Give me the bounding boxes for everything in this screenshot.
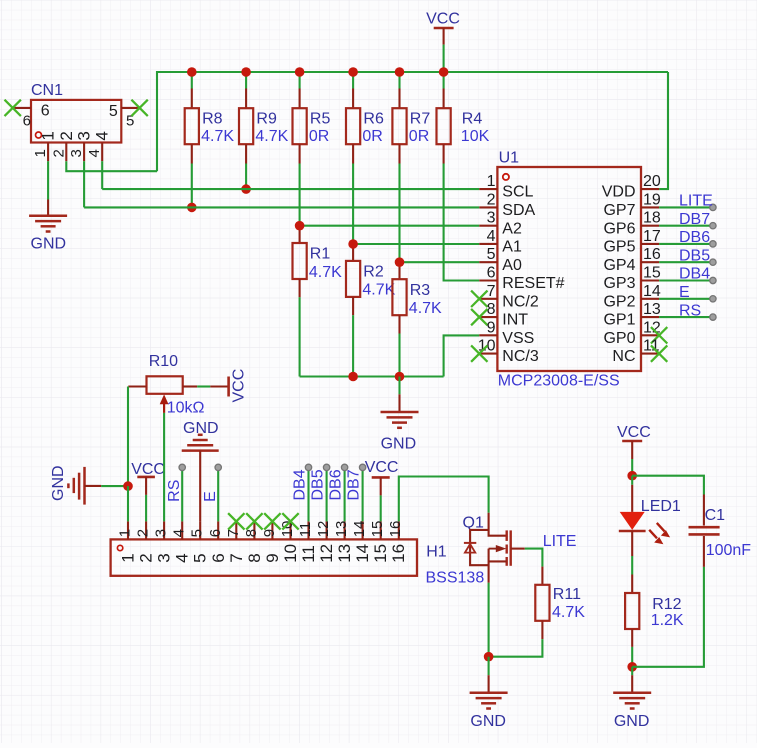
resistor R2: [352, 244, 354, 261]
wire net DB5: [659, 261, 713, 263]
LED1 cathode wire: [631, 531, 633, 556]
svg-text:3: 3: [487, 210, 496, 227]
svg-text:17: 17: [643, 228, 661, 245]
wire CN1 pin4 (SCL): [101, 161, 103, 189]
node R3 top junction: [395, 257, 405, 267]
svg-text:100nF: 100nF: [706, 542, 752, 559]
U1 pin 2 (SDA): [479, 206, 497, 208]
CN1 pin 1 indicator: [36, 132, 42, 138]
svg-text:5: 5: [487, 246, 496, 263]
svg-text:4.7K: 4.7K: [362, 282, 395, 299]
wire H1 pin6 (E): [217, 471, 219, 522]
svg-text:GND: GND: [614, 713, 650, 730]
wire net E: [659, 298, 713, 300]
wire net A2: [300, 225, 480, 227]
svg-text:1: 1: [487, 173, 496, 190]
U1 pin 14 (GP2): [641, 298, 659, 300]
svg-text:4.7K: 4.7K: [255, 128, 288, 145]
H1 pin 11: [307, 521, 309, 539]
svg-text:H1: H1: [426, 544, 447, 561]
R10 wiper arrow: [163, 401, 165, 413]
svg-text:CN1: CN1: [31, 82, 63, 99]
node R3/GND rail junction: [395, 372, 405, 382]
svg-text:LED1: LED1: [641, 498, 681, 515]
wire net DB7: [659, 225, 713, 227]
wire R7 lower: [398, 164, 400, 263]
svg-text:DB5: DB5: [310, 469, 327, 500]
svg-text:12: 12: [315, 521, 332, 538]
svg-text:4.7K: 4.7K: [309, 264, 342, 281]
svg-text:DB6: DB6: [328, 469, 345, 500]
svg-text:10kΩ: 10kΩ: [167, 399, 205, 416]
H1 pin 12: [326, 521, 328, 539]
ground GND (H1 pin5, flipped): [182, 449, 219, 452]
U1 pin 17 (GP5): [641, 243, 659, 245]
U1 pin 19 (GP7): [641, 206, 659, 208]
svg-text:BSS138: BSS138: [426, 570, 485, 587]
svg-text:C1: C1: [705, 507, 726, 524]
U1 pin 9 (VSS): [479, 334, 497, 336]
svg-text:3: 3: [155, 553, 174, 562]
svg-text:6: 6: [209, 553, 228, 562]
resistor R3: [398, 262, 400, 279]
svg-text:12: 12: [317, 544, 336, 563]
wire H1 pin3 to R10 wiper: [163, 413, 165, 522]
resistor R9: [245, 72, 247, 89]
R10 right pin to VCC: [183, 385, 198, 387]
svg-text:6: 6: [41, 103, 50, 120]
svg-text:DB6: DB6: [679, 229, 710, 246]
svg-text:8: 8: [243, 529, 260, 537]
resistor R4: [443, 72, 445, 89]
node LITE endpoint: [710, 204, 716, 210]
CN1 pin 3: [83, 143, 85, 162]
svg-text:GP6: GP6: [603, 220, 635, 237]
no-connect X on U1 pin 10: [471, 345, 487, 361]
node Q1 source/R11 junction: [484, 652, 494, 662]
wire H1 pin 13 (DB6): [344, 471, 346, 522]
svg-text:3: 3: [153, 529, 170, 537]
svg-text:VCC: VCC: [365, 459, 399, 476]
svg-text:11: 11: [299, 545, 318, 563]
svg-text:15: 15: [371, 544, 390, 563]
CN1 pin 1: [47, 143, 49, 162]
svg-text:19: 19: [643, 191, 661, 208]
svg-text:1.2K: 1.2K: [651, 612, 684, 629]
wire rail to ground: [398, 377, 400, 395]
svg-text:VCC: VCC: [426, 10, 460, 27]
U1 pin 15 (GP3): [641, 279, 659, 281]
svg-text:14: 14: [351, 521, 368, 538]
Q1 body-diode loop: [470, 530, 489, 565]
wire H1 pin 14 (DB7): [362, 471, 364, 522]
wire H1 pin16 to Q1 drain: [399, 477, 489, 522]
svg-text:9: 9: [263, 553, 282, 562]
U1 pin 3 (A2): [479, 225, 497, 227]
svg-text:E: E: [202, 491, 219, 502]
svg-text:8: 8: [245, 553, 264, 562]
svg-text:0R: 0R: [409, 128, 429, 145]
svg-text:4.7K: 4.7K: [552, 604, 585, 621]
svg-text:6: 6: [487, 265, 496, 282]
svg-text:16: 16: [643, 246, 661, 263]
svg-text:VCC: VCC: [617, 424, 651, 441]
H1 pin 4: [181, 521, 183, 539]
svg-text:VCC: VCC: [231, 369, 248, 403]
svg-text:3: 3: [75, 131, 94, 140]
node DB7 endpoint: [359, 464, 365, 470]
wire R6 lower: [352, 164, 354, 245]
svg-text:18: 18: [643, 210, 661, 227]
svg-text:GP7: GP7: [603, 202, 635, 219]
ground GND (Q1): [470, 691, 508, 694]
LED1 emission arrows: [649, 523, 670, 544]
node DB5 endpoint: [710, 259, 716, 265]
svg-text:GND: GND: [31, 236, 67, 253]
svg-text:VDD: VDD: [602, 184, 636, 201]
svg-text:5: 5: [191, 553, 210, 562]
wire net RESET#: [444, 164, 480, 281]
U1 pin 1 indicator: [503, 174, 509, 180]
svg-text:R9: R9: [256, 111, 277, 128]
node H1 pin1 junction: [123, 481, 133, 491]
svg-text:6: 6: [23, 112, 31, 129]
CN1 pin 2: [65, 143, 67, 162]
svg-text:1: 1: [117, 529, 134, 537]
wire net A1: [353, 243, 479, 245]
svg-text:GND: GND: [50, 465, 67, 501]
H1 pin 14: [362, 521, 364, 539]
wire to ground (R12): [631, 667, 633, 675]
Q1 body diode: [464, 542, 476, 544]
svg-text:VCC: VCC: [131, 461, 165, 478]
CN1 pin 5: [121, 107, 139, 109]
wire net RS: [659, 316, 713, 318]
svg-text:DB5: DB5: [679, 247, 710, 264]
svg-text:7: 7: [225, 529, 242, 537]
svg-text:INT: INT: [502, 312, 528, 329]
svg-text:LITE: LITE: [679, 193, 713, 210]
U1 pin 10 (NC/3): [479, 353, 497, 355]
svg-text:10: 10: [281, 544, 300, 563]
wire R3 to GND rail: [398, 334, 400, 377]
no-connect X on U1 pin 8: [471, 309, 487, 325]
H1 pin 2: [145, 521, 147, 539]
node DB7 endpoint: [710, 223, 716, 229]
resistor R12: [631, 575, 633, 594]
wire VCC to LED node: [631, 459, 633, 476]
svg-text:R10: R10: [149, 353, 178, 370]
U1 pin 1 (SCL): [479, 188, 497, 190]
svg-text:GP2: GP2: [603, 293, 635, 310]
wire H1 pin4 (RS): [181, 471, 183, 522]
supply VCC (R10, rotated): [227, 377, 230, 397]
svg-text:9: 9: [261, 529, 278, 537]
wire R9 lower: [245, 164, 247, 190]
svg-text:E: E: [679, 284, 690, 301]
no-connect X on U1 pin 11: [651, 345, 667, 361]
wire R5 lower: [299, 164, 301, 226]
svg-text:R7: R7: [410, 111, 431, 128]
U1 pin 13 (GP1): [641, 316, 659, 318]
svg-text:3: 3: [68, 149, 85, 157]
wire left GND to H1 pin1 column: [85, 485, 102, 487]
svg-text:R3: R3: [410, 282, 431, 299]
ground GND (CN1): [29, 214, 67, 217]
wire R1 to GND rail: [299, 297, 301, 376]
svg-text:SDA: SDA: [502, 202, 535, 219]
node R12/C1 junction: [627, 662, 637, 672]
U1 pin 11 (NC): [641, 353, 659, 355]
wire C1 bottom to R12 node: [632, 567, 704, 667]
svg-text:11: 11: [297, 522, 314, 538]
wire net LITE (gate): [525, 549, 543, 567]
svg-text:DB7: DB7: [346, 469, 363, 500]
H1 pin 10: [289, 521, 291, 539]
wire net SDA: [84, 206, 479, 208]
H1 pin 1 indicator: [117, 545, 122, 550]
U1 pin 7 (NC/2): [479, 298, 497, 300]
wire H1 pin 11 (DB4): [307, 471, 309, 522]
H1 pin 7: [235, 521, 237, 539]
svg-text:GP5: GP5: [603, 239, 635, 256]
H1 pin 6: [217, 521, 219, 539]
wire H1 pin 12 (DB5): [326, 471, 328, 522]
svg-text:14: 14: [353, 544, 372, 563]
svg-text:4: 4: [86, 149, 103, 157]
no-connect X on CN1 pin 5: [131, 100, 147, 116]
svg-text:5: 5: [189, 529, 206, 537]
wire rail to U1 VDD: [659, 72, 668, 189]
svg-text:GND: GND: [381, 435, 417, 452]
svg-text:2: 2: [137, 553, 156, 562]
svg-text:2: 2: [135, 529, 152, 537]
svg-text:GP0: GP0: [603, 330, 635, 347]
wire net DB4: [659, 279, 713, 281]
svg-text:GND: GND: [183, 420, 219, 437]
svg-text:A2: A2: [502, 220, 522, 237]
svg-text:4: 4: [173, 553, 192, 562]
H1 pin 15: [380, 521, 382, 539]
node R9 rail junction: [241, 67, 251, 77]
CN1 pin 4: [101, 143, 103, 162]
U1 pin 20 (VDD): [641, 188, 659, 190]
node R2 top junction: [348, 239, 358, 249]
node DB5 endpoint: [323, 464, 329, 470]
svg-text:NC: NC: [612, 348, 635, 365]
ground GND (center): [381, 411, 419, 414]
svg-text:NC/3: NC/3: [502, 348, 539, 365]
H1 pin 13: [344, 521, 346, 539]
U1 pin 16 (GP4): [641, 261, 659, 263]
wire CN1 pin1 to GND: [47, 161, 49, 199]
svg-text:GP1: GP1: [603, 312, 635, 329]
svg-text:14: 14: [643, 283, 661, 300]
svg-text:LITE: LITE: [543, 533, 577, 550]
CN1 pin 6: [13, 107, 31, 109]
svg-text:DB7: DB7: [679, 211, 710, 228]
node R5 rail junction: [295, 67, 305, 77]
H1 pin 9: [271, 521, 273, 539]
H1 pin 5: [199, 521, 201, 539]
U1 pin 12 (GP0): [641, 334, 659, 336]
Q1 source lead: [488, 549, 490, 583]
node RS endpoint: [179, 464, 185, 470]
svg-text:RS: RS: [166, 480, 183, 502]
node DB4 endpoint: [710, 277, 716, 283]
svg-text:2: 2: [487, 191, 496, 208]
svg-text:10K: 10K: [461, 128, 490, 145]
R10 left pin wire: [128, 385, 146, 387]
U1 pin 8 (INT): [479, 316, 497, 318]
svg-text:5: 5: [109, 103, 118, 120]
node R8 rail junction: [187, 67, 197, 77]
wire Q1 source to GND node: [488, 583, 490, 657]
no-connect X on CN1 pin 6: [5, 100, 21, 116]
wire VCC rail (top trunk): [157, 72, 668, 171]
svg-text:1: 1: [39, 131, 58, 140]
node R6 rail junction: [348, 67, 358, 77]
U1 pin 5 (A0): [479, 261, 497, 263]
node E endpoint: [710, 296, 716, 302]
no-connect X on H1 pin 9: [264, 513, 280, 529]
svg-text:R11: R11: [553, 586, 581, 603]
svg-text:A1: A1: [502, 239, 522, 256]
svg-text:9: 9: [487, 319, 496, 336]
svg-text:15: 15: [643, 265, 661, 282]
wire net A0: [400, 261, 480, 263]
wire CN1 pin2 to VCC rail: [66, 161, 157, 171]
Q1 bulk arrow: [489, 548, 501, 550]
no-connect X on H1 pin 7: [228, 513, 244, 529]
H1 pin 1: [127, 521, 129, 539]
svg-text:DB4: DB4: [292, 469, 309, 500]
svg-text:R12: R12: [652, 596, 681, 613]
svg-text:GND: GND: [470, 713, 506, 730]
wire net SCL: [102, 188, 479, 190]
svg-text:6: 6: [207, 529, 224, 537]
resistor R6: [352, 72, 354, 89]
svg-text:2: 2: [57, 131, 76, 140]
node DB4 endpoint: [305, 464, 311, 470]
svg-text:4: 4: [171, 529, 188, 537]
wire R2 to GND rail: [352, 315, 354, 376]
svg-text:DB4: DB4: [679, 266, 710, 283]
H1 pin 8: [253, 521, 255, 539]
svg-text:U1: U1: [499, 150, 520, 167]
svg-text:20: 20: [643, 173, 661, 190]
node DB6 endpoint: [710, 241, 716, 247]
wire net DB6: [659, 243, 713, 245]
svg-text:13: 13: [335, 544, 354, 563]
no-connect X on H1 pin 10: [282, 513, 298, 529]
svg-text:RESET#: RESET#: [502, 275, 564, 292]
svg-text:R8: R8: [202, 111, 223, 128]
wire to C1 top: [632, 476, 704, 495]
ground GND (left, rotated): [83, 467, 86, 505]
svg-text:4: 4: [93, 131, 112, 140]
no-connect X on U1 pin 12: [651, 327, 667, 343]
svg-text:RS: RS: [679, 302, 701, 319]
no-connect X on U1 pin 7: [471, 291, 487, 307]
resistor R5: [299, 72, 301, 89]
wire R8 lower: [191, 164, 193, 208]
node R4 rail junction: [439, 67, 449, 77]
wire to ground (Q1): [488, 657, 490, 676]
U1 pin 18 (GP6): [641, 225, 659, 227]
node VCC/LED/C1 junction: [627, 471, 637, 481]
svg-text:R1: R1: [310, 246, 331, 263]
wire VCC stem to rail: [443, 45, 445, 72]
svg-text:16: 16: [387, 521, 404, 538]
wire GND rail (bottom of R1-R3): [300, 375, 444, 377]
svg-text:16: 16: [389, 544, 408, 563]
node R9/SCL junction: [241, 184, 251, 194]
resistor R11: [541, 567, 543, 585]
H1 pin 16: [398, 521, 400, 539]
U1 pin 6 (RESET#): [479, 279, 497, 281]
U1 pin 4 (A1): [479, 243, 497, 245]
node R1 top junction: [295, 221, 305, 231]
wire net LITE: [659, 206, 713, 208]
svg-text:2: 2: [50, 149, 67, 157]
svg-text:1: 1: [32, 149, 49, 157]
ground GND (right): [613, 691, 651, 694]
svg-text:0R: 0R: [309, 128, 329, 145]
svg-text:A0: A0: [502, 257, 522, 274]
Q1 gate lead: [511, 548, 525, 550]
header H1: [111, 539, 417, 575]
Q1 channel strokes: [506, 530, 508, 541]
node DB6 endpoint: [341, 464, 347, 470]
wire R11 to GND node: [489, 639, 543, 657]
svg-text:R2: R2: [363, 264, 384, 281]
svg-text:4.7K: 4.7K: [409, 300, 442, 317]
resistor R8: [191, 72, 193, 89]
resistor R7: [398, 72, 400, 89]
svg-text:R4: R4: [462, 111, 483, 128]
svg-text:15: 15: [369, 521, 386, 538]
svg-text:SCL: SCL: [502, 184, 533, 201]
svg-text:NC/2: NC/2: [502, 293, 539, 310]
wire net VSS riser: [444, 335, 480, 376]
svg-text:MCP23008-E/SS: MCP23008-E/SS: [498, 373, 620, 390]
node R8/SDA junction: [187, 203, 197, 213]
no-connect X on H1 pin 8: [246, 513, 262, 529]
svg-text:R6: R6: [363, 111, 384, 128]
svg-text:0R: 0R: [362, 128, 382, 145]
wire H1 pin1 up: [127, 486, 129, 521]
svg-text:R5: R5: [310, 111, 331, 128]
svg-text:4: 4: [487, 228, 496, 245]
node R7 rail junction: [395, 67, 405, 77]
node RS endpoint: [710, 314, 716, 320]
node R2 rail junction: [348, 372, 358, 382]
svg-text:GP4: GP4: [603, 257, 635, 274]
Q1 drain lead: [489, 513, 507, 536]
Q1 gate bar: [510, 530, 512, 565]
wire R12 to GND node: [631, 647, 633, 667]
svg-text:VSS: VSS: [502, 330, 534, 347]
H1 pin 3: [163, 521, 165, 539]
wire CN1 pin3 (SDA): [83, 161, 85, 207]
svg-text:13: 13: [333, 521, 350, 538]
svg-text:1: 1: [119, 553, 138, 562]
svg-text:13: 13: [643, 301, 661, 318]
resistor R1: [299, 226, 301, 243]
svg-text:4.7K: 4.7K: [201, 128, 234, 145]
svg-text:Q1: Q1: [463, 514, 484, 531]
